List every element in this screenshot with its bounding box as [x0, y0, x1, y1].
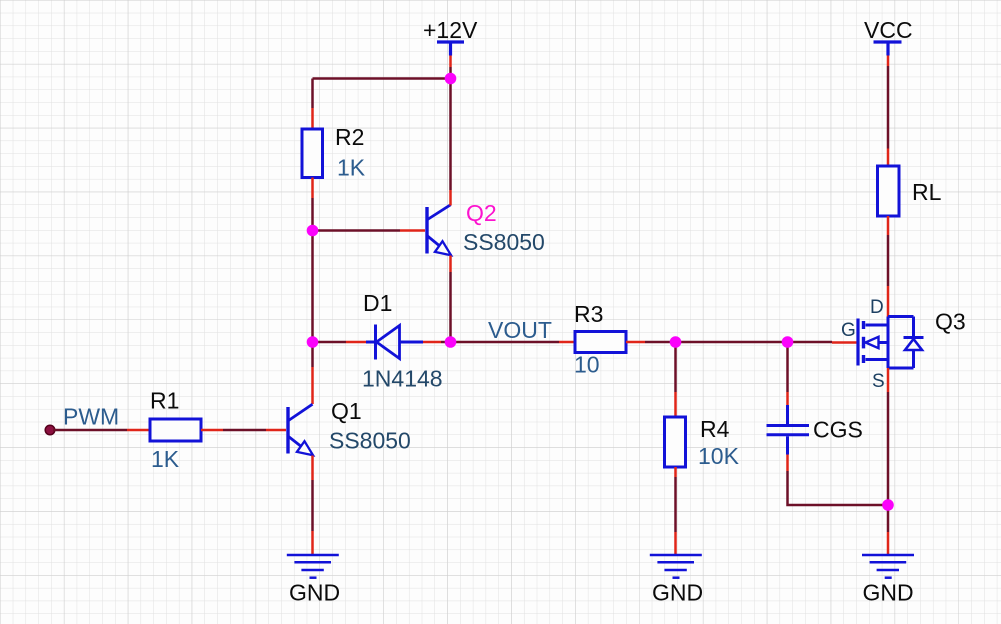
- svg-text:+12V: +12V: [423, 17, 478, 43]
- wire Q1 base pin: [266, 429, 286, 432]
- svg-text:R3: R3: [574, 301, 603, 327]
- ground GND right: [862, 555, 914, 578]
- wire R4 to GND: [674, 477, 677, 532]
- wire VCC stub: [887, 56, 890, 67]
- wire Q2 emitter pin: [449, 256, 452, 273]
- wire R1 left pin: [127, 429, 150, 432]
- wire Q2 base net: [313, 229, 401, 232]
- resistor R1: [150, 419, 201, 441]
- power symbol +12V: [437, 42, 464, 56]
- diode D1: [366, 325, 423, 360]
- wire RL bottom pin: [887, 216, 890, 235]
- svg-text:GND: GND: [652, 580, 703, 606]
- wire node E down: [786, 342, 789, 392]
- wire VOUT to R3: [451, 341, 560, 344]
- wire Q2 collector to top junction: [449, 79, 452, 191]
- wire node E toward gate: [788, 341, 833, 344]
- svg-text:1K: 1K: [151, 446, 180, 472]
- wire R4 bottom pin: [674, 467, 677, 477]
- svg-text:CGS: CGS: [813, 417, 863, 443]
- wire Q2 emitter to VOUT node: [449, 272, 452, 342]
- svg-text:1K: 1K: [337, 155, 366, 181]
- wire node D to node E: [676, 341, 788, 344]
- svg-text:R2: R2: [335, 124, 364, 150]
- junction node R4 top: [670, 336, 682, 348]
- svg-text:D: D: [870, 297, 884, 318]
- svg-text:S: S: [872, 371, 885, 392]
- junction node D1 cathode: [307, 336, 319, 348]
- svg-text:10K: 10K: [698, 443, 740, 469]
- wire CGS top pin: [786, 392, 789, 405]
- wire Q3 drain pin: [887, 286, 890, 317]
- svg-text:Q2: Q2: [466, 200, 497, 226]
- wire source to node F: [887, 392, 890, 532]
- power symbol VCC: [874, 42, 902, 56]
- wire Q1 collector pin: [311, 367, 314, 404]
- node PWM terminal: [45, 425, 55, 435]
- svg-text:VCC: VCC: [864, 17, 913, 43]
- wire R1 to Q1 base: [223, 429, 266, 432]
- ground GND left: [287, 555, 339, 578]
- svg-text:D1: D1: [363, 290, 392, 316]
- wire R3 right pin: [626, 341, 645, 344]
- wire D1 to VOUT junction: [441, 341, 451, 344]
- transistor Q3 (NMOS): [858, 317, 924, 369]
- wire Q2 collector pin: [449, 190, 452, 206]
- wire CGS to source rail: [788, 471, 889, 505]
- junction node CGS top: [782, 336, 794, 348]
- svg-text:RL: RL: [912, 179, 942, 205]
- wire +12V stub: [449, 56, 452, 68]
- junction node at +12V rail: [445, 73, 457, 85]
- wire R2 bottom pin: [311, 178, 314, 199]
- capacitor CGS: [767, 405, 810, 455]
- svg-text:R1: R1: [150, 388, 179, 414]
- svg-text:1N4148: 1N4148: [362, 366, 443, 392]
- svg-text:SS8050: SS8050: [329, 428, 411, 454]
- svg-text:Q1: Q1: [331, 398, 362, 424]
- wire D1 cathode pin: [346, 341, 366, 344]
- wire R1 right pin: [201, 429, 223, 432]
- wire +12V to junction: [449, 67, 452, 79]
- svg-text:SS8050: SS8050: [463, 229, 545, 255]
- resistor R4: [665, 417, 686, 467]
- svg-text:R4: R4: [700, 416, 730, 442]
- wire node B down to Q1 collector: [311, 231, 314, 368]
- junction node VOUT: [445, 336, 457, 348]
- wire Q2 base pin: [400, 229, 425, 232]
- resistor R2: [302, 129, 323, 178]
- svg-text:GND: GND: [289, 580, 340, 606]
- wire R2 top pin: [311, 108, 314, 129]
- wire R3 to node D: [645, 341, 676, 344]
- svg-text:10: 10: [574, 352, 600, 378]
- wire RL to Q3 drain: [887, 235, 890, 286]
- wire R3 left pin: [559, 341, 575, 344]
- transistor Q1: [288, 404, 313, 455]
- resistor RL: [878, 166, 900, 216]
- svg-text:Q3: Q3: [935, 309, 966, 335]
- wire node D down: [674, 342, 677, 392]
- wire R4 top pin: [674, 392, 677, 417]
- ground GND middle: [650, 555, 702, 578]
- wire Q3 gate pin: [832, 341, 858, 344]
- wire VCC to RL: [887, 66, 890, 149]
- wire Q1 emitter to GND: [311, 480, 314, 531]
- wire RL top pin: [887, 149, 890, 167]
- wire GND pin left: [311, 531, 314, 554]
- wire node C to D1: [313, 341, 347, 344]
- svg-text:PWM: PWM: [63, 404, 119, 430]
- svg-text:VOUT: VOUT: [488, 317, 552, 343]
- junction node source/CGS: [882, 499, 894, 511]
- wire Q1 emitter pin: [311, 456, 314, 481]
- svg-text:G: G: [841, 320, 856, 341]
- wire PWM to R1: [53, 429, 127, 432]
- wire CGS bottom pin: [786, 455, 789, 472]
- svg-text:GND: GND: [863, 580, 914, 606]
- wire top rail: [313, 79, 451, 109]
- wire D1 anode pin: [423, 341, 441, 344]
- wire R2 to node B: [311, 198, 314, 231]
- wire GND pin right: [887, 532, 890, 554]
- transistor Q2: [427, 205, 451, 256]
- wire Q3 source pin: [887, 368, 890, 392]
- wire GND pin mid: [674, 532, 677, 554]
- junction node R2/Q2 base: [307, 225, 319, 237]
- resistor R3: [575, 332, 626, 353]
